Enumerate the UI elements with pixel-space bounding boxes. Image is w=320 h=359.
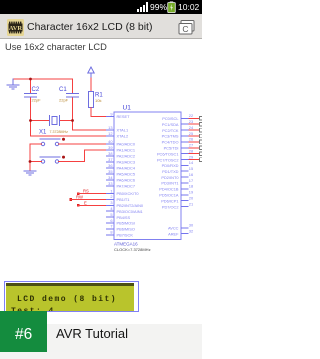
pin 12 XTAL2	[106, 131, 128, 139]
svg-text:21: 21	[189, 201, 193, 206]
svg-text:PB4/SS: PB4/SS	[117, 215, 131, 220]
svg-text:PD6/ICP1: PD6/ICP1	[161, 198, 178, 203]
pin 19 PD5/OC1A	[159, 190, 193, 198]
svg-text:C1: C1	[59, 87, 67, 93]
svg-text:33: 33	[108, 181, 112, 186]
pin 2 PB1/T1	[106, 194, 129, 202]
svg-text:PA7/ADC7: PA7/ADC7	[117, 184, 136, 189]
power VCC arrow	[88, 67, 94, 78]
resistor R1	[89, 92, 94, 108]
svg-text:PA3/ADC3: PA3/ADC3	[117, 160, 136, 165]
circuit schematic	[0, 0, 202, 260]
wire crystal left	[31, 120, 50, 122]
net label E wire to PB2	[77, 204, 80, 207]
wire button1 left	[30, 143, 41, 145]
svg-text:PC3/TMS: PC3/TMS	[162, 134, 179, 139]
pin 6 PB5/MOSI	[106, 218, 135, 226]
svg-text:AREF: AREF	[168, 231, 179, 236]
button SW1	[40, 139, 60, 146]
signal icon	[137, 2, 149, 12]
pin 38 PA2/ADC2	[106, 151, 135, 159]
pin 32 AREF	[168, 229, 193, 237]
svg-text:8: 8	[110, 230, 112, 235]
net label RW wire to PB1	[69, 198, 72, 201]
wire C2 vertical net / XTAL2	[31, 79, 107, 136]
pin 9 RESET	[106, 111, 130, 119]
pin 33 PA7/ADC7	[106, 181, 135, 189]
svg-text:12: 12	[108, 131, 112, 136]
ground GND2	[24, 171, 36, 175]
#6 green thumbnail	[0, 311, 47, 352]
svg-text:PC7/TOSC2: PC7/TOSC2	[157, 157, 179, 162]
svg-text:PD5/OC1A: PD5/OC1A	[159, 193, 179, 198]
svg-text:PD0/RXD: PD0/RXD	[162, 163, 179, 168]
svg-text:19: 19	[189, 190, 193, 195]
svg-text:X1: X1	[39, 130, 47, 136]
svg-text:PD1/TXD: PD1/TXD	[162, 169, 179, 174]
pin 40 PA0/ADC0	[106, 139, 136, 147]
pin 28 PC6/TOSC1	[157, 149, 204, 157]
net label RS wire to PB0	[77, 192, 80, 195]
pin 36 PA4/ADC4	[106, 163, 136, 171]
svg-text:PC1/SDA: PC1/SDA	[162, 122, 179, 127]
status bar	[0, 0, 202, 14]
pin 24 PC2/TCK	[162, 125, 204, 133]
bottom list row	[0, 352, 202, 359]
pin 26 PC4/TDO	[162, 137, 204, 145]
title bar	[0, 14, 202, 39]
svg-text:PC5/TDI: PC5/TDI	[164, 146, 179, 151]
node crystal right	[71, 119, 74, 122]
svg-text:1: 1	[110, 188, 112, 193]
svg-text:U1: U1	[123, 105, 132, 112]
pin 39 PA1/ADC1	[106, 145, 135, 153]
svg-text:13: 13	[108, 125, 112, 130]
wire button2 to PA1	[59, 150, 106, 162]
svg-text:PA4/ADC4: PA4/ADC4	[117, 166, 136, 171]
pin 35 PA5/ADC5	[106, 169, 135, 177]
svg-text:17: 17	[189, 178, 193, 183]
LCD screenshot block	[4, 281, 139, 312]
crystal X1	[50, 116, 60, 126]
svg-text:E: E	[84, 200, 87, 205]
wire R1 to RESET pin	[91, 108, 106, 117]
svg-text:PB2/INT2/AIN0: PB2/INT2/AIN0	[117, 203, 144, 208]
button SW2	[40, 157, 60, 163]
svg-text:5: 5	[110, 212, 112, 217]
svg-text:AVCC: AVCC	[168, 226, 179, 231]
svg-text:PA5/ADC5: PA5/ADC5	[117, 172, 136, 177]
svg-text:28: 28	[189, 149, 193, 154]
svg-text:PD7/OC2: PD7/OC2	[162, 204, 179, 209]
svg-text:PA2/ADC2: PA2/ADC2	[117, 154, 136, 159]
svg-text:PA6/ADC6: PA6/ADC6	[117, 178, 136, 183]
svg-text:16: 16	[189, 172, 193, 177]
svg-text:30: 30	[189, 223, 194, 228]
pin 22 PC0/SCL	[162, 113, 204, 121]
svg-text:25: 25	[189, 131, 193, 136]
wire C1 vertical net / XTAL1	[73, 79, 107, 130]
node crystal left	[29, 119, 32, 122]
svg-text:RESET: RESET	[117, 114, 131, 119]
svg-text:PA1/ADC1: PA1/ADC1	[117, 148, 136, 153]
svg-text:3: 3	[110, 200, 112, 205]
capacitor C1	[67, 94, 79, 97]
pin 23 PC1/SDA	[162, 119, 204, 127]
pin 16 PD2/INT0	[161, 172, 193, 180]
svg-text:27: 27	[189, 143, 193, 148]
svg-text:22pF: 22pF	[32, 97, 42, 102]
svg-text:22: 22	[189, 113, 193, 118]
pin 20 PD6/ICP1	[161, 196, 194, 204]
svg-text:18: 18	[189, 184, 193, 189]
wire buttons ground rail	[29, 144, 31, 171]
wire crystal right	[60, 120, 73, 122]
pin 30 AVCC	[168, 223, 194, 231]
svg-text:35: 35	[108, 169, 112, 174]
ground GND1	[7, 79, 19, 89]
pin 8 PB7/SCK	[106, 230, 133, 238]
svg-text:PB7/SCK: PB7/SCK	[117, 233, 134, 238]
svg-text:20: 20	[189, 196, 194, 201]
svg-text:PC0/SCL: PC0/SCL	[162, 116, 179, 121]
svg-text:32: 32	[189, 229, 193, 234]
svg-text:40: 40	[108, 139, 113, 144]
svg-text:36: 36	[108, 163, 112, 168]
svg-text:23: 23	[189, 119, 193, 124]
wire top rail	[13, 78, 73, 80]
svg-text:9: 9	[110, 111, 112, 116]
svg-text:2: 2	[110, 194, 112, 199]
pin 29 PC7/TOSC2	[157, 154, 204, 162]
svg-text:ATMEGA16: ATMEGA16	[114, 242, 138, 247]
pin 3 PB2/INT2/AIN0	[106, 200, 144, 208]
pin 7 PB6/MISO	[106, 224, 135, 232]
svg-text:PC4/TDO: PC4/TDO	[162, 140, 179, 145]
pin 37 PA3/ADC3	[106, 157, 135, 165]
pin 14 PD0/RXD	[162, 160, 194, 168]
pin 15 PD1/TXD	[162, 166, 193, 174]
svg-text:39: 39	[108, 145, 112, 150]
svg-text:PD3/INT1: PD3/INT1	[161, 181, 178, 186]
svg-text:22pF: 22pF	[59, 97, 69, 102]
svg-text:24: 24	[189, 125, 194, 130]
svg-text:PB6/MISO: PB6/MISO	[117, 227, 135, 232]
pin 4 PB3/OC0/AIN1	[106, 206, 143, 214]
pin 13 XTAL1	[106, 125, 128, 133]
pin 18 PD4/OC1B	[159, 184, 193, 192]
battery icon	[167, 1, 176, 13]
wire button1 to PA0	[59, 143, 106, 145]
subtitle	[5, 42, 107, 52]
svg-text:14: 14	[189, 160, 194, 165]
node button2	[62, 156, 65, 159]
pin 21 PD7/OC2	[162, 201, 193, 209]
svg-text:XTAL1: XTAL1	[117, 128, 129, 133]
svg-text:PB5/MOSI: PB5/MOSI	[117, 221, 135, 226]
svg-text:CLOCK=7.3728MHz: CLOCK=7.3728MHz	[114, 247, 151, 252]
svg-text:4: 4	[110, 206, 113, 211]
svg-text:7: 7	[110, 224, 112, 229]
svg-text:37: 37	[108, 157, 112, 162]
wire button2 left	[30, 161, 41, 163]
node top junction	[29, 78, 32, 81]
svg-text:RS: RS	[83, 189, 89, 194]
pin 1 PB0/XCK/T0	[106, 188, 139, 196]
svg-text:C2: C2	[32, 87, 40, 93]
svg-text:7.3728MHz: 7.3728MHz	[50, 130, 69, 134]
pin 17 PD3/INT1	[161, 178, 193, 186]
AVR app icon	[7, 19, 24, 36]
svg-text:PB1/T1: PB1/T1	[117, 197, 130, 202]
svg-text:6: 6	[110, 218, 112, 223]
pin 25 PC3/TMS	[162, 131, 204, 139]
capacitor C2	[25, 94, 37, 97]
svg-text:26: 26	[189, 137, 193, 142]
svg-text:PB0/XCK/T0: PB0/XCK/T0	[117, 191, 140, 196]
node rail junction	[29, 160, 32, 163]
svg-text:PB3/OC0/AIN1: PB3/OC0/AIN1	[117, 209, 143, 214]
pin 34 PA6/ADC6	[106, 175, 135, 183]
pin 5 PB4/SS	[106, 212, 131, 220]
svg-text:PC2/TCK: PC2/TCK	[162, 128, 179, 133]
IC U1 ATMEGA16 body	[114, 112, 181, 240]
svg-text:38: 38	[108, 151, 112, 156]
wire VCC to R1	[90, 78, 92, 92]
svg-text:10k: 10k	[95, 98, 101, 103]
svg-text:PC6/TOSC1: PC6/TOSC1	[157, 151, 179, 156]
svg-text:34: 34	[108, 175, 113, 180]
copy C icon	[178, 20, 195, 35]
svg-text:15: 15	[189, 166, 193, 171]
svg-text:RW: RW	[76, 195, 83, 200]
svg-text:29: 29	[189, 154, 193, 159]
svg-text:PD4/OC1B: PD4/OC1B	[159, 187, 179, 192]
svg-text:PA0/ADC0: PA0/ADC0	[117, 142, 136, 147]
node button1	[62, 138, 65, 141]
pin 27 PC5/TDI	[164, 143, 204, 151]
svg-text:XTAL2: XTAL2	[117, 134, 129, 139]
svg-text:PD2/INT0: PD2/INT0	[161, 175, 179, 180]
